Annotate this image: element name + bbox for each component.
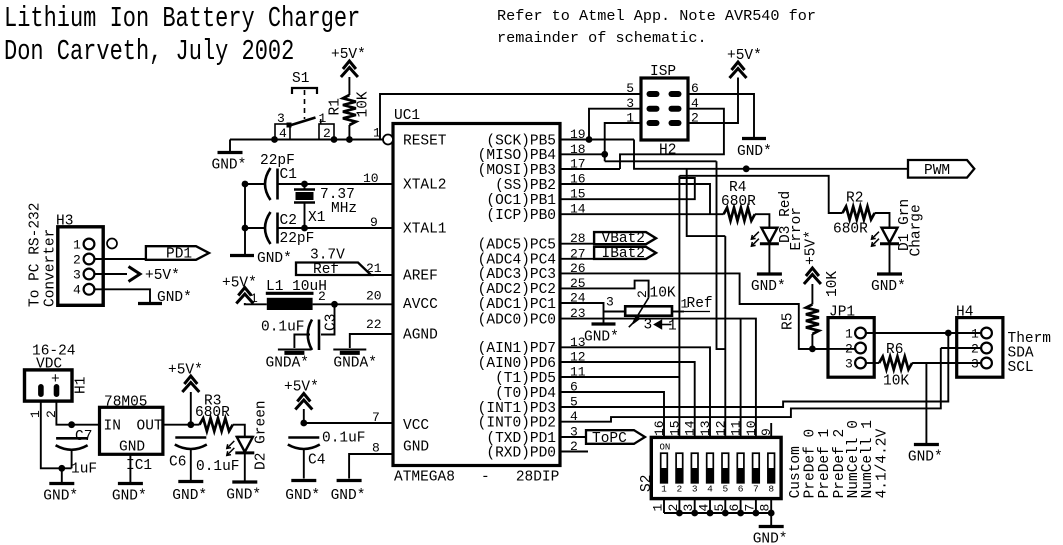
wire to C2 <box>245 227 266 229</box>
wire C2 to IC pin9 <box>278 227 394 229</box>
wire R5 bottom <box>811 334 813 349</box>
svg-text:0.1uF: 0.1uF <box>261 320 305 336</box>
svg-text:R5: R5 <box>781 313 797 330</box>
svg-text:GND*: GND* <box>112 489 147 505</box>
LED D1 <box>872 228 900 247</box>
wire pin24 row <box>560 303 604 323</box>
svg-text:(ICP)PB0: (ICP)PB0 <box>486 208 556 224</box>
svg-text:1: 1 <box>845 327 853 342</box>
svg-text:+5V*: +5V* <box>222 276 257 292</box>
svg-text:OUT: OUT <box>137 419 163 435</box>
svg-text:(RXD)PD0: (RXD)PD0 <box>486 445 556 461</box>
junction pin19/ISP3 <box>586 136 593 143</box>
svg-text:1: 1 <box>73 238 81 253</box>
wire pin15 row <box>560 178 695 199</box>
wire S2 to gnd <box>770 513 772 525</box>
wire JP1 pin3 to R6 <box>866 362 879 364</box>
svg-text:6: 6 <box>738 484 744 495</box>
svg-text:Lithium Ion Battery Charger: Lithium Ion Battery Charger <box>4 2 360 35</box>
IC left pin names <box>403 133 447 455</box>
svg-text:(ADC4)PC4: (ADC4)PC4 <box>478 253 556 269</box>
svg-text:RESET: RESET <box>403 133 447 149</box>
junction C6/+5V <box>187 421 194 428</box>
resistor R2 <box>843 207 875 220</box>
power +5V at C4 <box>295 394 312 410</box>
ground under H4 <box>908 445 943 466</box>
ground IC1 <box>112 484 147 505</box>
wire R2 to D1 <box>875 213 890 228</box>
svg-text:(SS)PB2: (SS)PB2 <box>495 178 556 194</box>
wire R4 to D3 <box>755 214 770 228</box>
wire S2 col6 feed <box>740 319 742 438</box>
junction rail C2 <box>242 225 249 232</box>
wire pin14 row <box>560 213 724 215</box>
svg-text:R1: R1 <box>328 98 344 115</box>
LED D2 <box>227 437 255 456</box>
svg-text:XTAL1: XTAL1 <box>403 222 447 238</box>
connector H3 box <box>58 227 103 305</box>
wire C3 left <box>294 335 310 349</box>
wire C6 bottom <box>190 449 192 481</box>
wire GND pin8 <box>349 454 393 479</box>
ground for crystal caps <box>230 251 292 267</box>
label Ref net <box>684 296 713 312</box>
+5V chevron right <box>129 267 141 282</box>
svg-text:PWM: PWM <box>924 163 950 179</box>
svg-text:(ADC1)PC1: (ADC1)PC1 <box>478 297 556 313</box>
LED D3 <box>751 228 779 247</box>
flag PWM <box>908 160 974 179</box>
ground ISP <box>737 139 772 161</box>
resistor R3 <box>200 418 233 431</box>
svg-text:GND*: GND* <box>285 488 320 504</box>
svg-text:(T1)PD5: (T1)PD5 <box>495 371 556 387</box>
switch S1 blade <box>288 118 316 127</box>
wire S2 col2 feed <box>678 176 680 438</box>
power +5V at L1 <box>236 288 253 304</box>
H3 pad2 <box>84 254 95 265</box>
IC right pin names <box>478 133 556 461</box>
wire pin28 row <box>560 243 594 245</box>
switch S1 contact box 4 <box>275 124 290 140</box>
H4 pad3 <box>981 358 992 369</box>
wire pin25 row <box>560 281 649 298</box>
svg-text:4.1/4.2V: 4.1/4.2V <box>875 428 891 498</box>
svg-text:22: 22 <box>366 317 382 332</box>
wire pin3 row <box>560 436 586 438</box>
svg-text:20: 20 <box>366 289 382 304</box>
inductor L1 <box>266 293 314 310</box>
H4 pad1 <box>981 328 992 339</box>
wire H3 pin2 to PD1 flag <box>94 258 145 260</box>
wire pin12 row <box>560 362 695 437</box>
svg-text:+: + <box>51 372 60 388</box>
wire R1 top <box>348 77 350 95</box>
wire ISP pin6 to gnd <box>688 94 754 138</box>
wire IC1 out <box>163 424 200 426</box>
IC left pin numbers <box>363 126 382 456</box>
H3 pad3 <box>84 269 95 280</box>
H3 pad4 <box>84 284 95 295</box>
svg-text:GND*: GND* <box>157 290 192 306</box>
svg-text:7: 7 <box>753 484 759 495</box>
capacitor C6 <box>175 438 207 450</box>
svg-text:ATMEGA8 - 28DIP: ATMEGA8 - 28DIP <box>394 470 559 486</box>
S2 bottom stubs <box>651 499 773 513</box>
svg-text:D2 Green: D2 Green <box>254 400 270 470</box>
regulator IC1 box <box>100 407 163 454</box>
ground C6 <box>172 482 207 505</box>
svg-text:8: 8 <box>768 484 774 495</box>
H2 pin numbers left <box>626 81 634 126</box>
trimmer body <box>625 306 672 315</box>
svg-text:(INT0)PD2: (INT0)PD2 <box>478 416 556 432</box>
resistor R6 <box>879 357 912 370</box>
junction C7 gnd <box>58 465 65 472</box>
junction C7 top <box>68 421 75 428</box>
S2 bottom bus <box>664 512 771 514</box>
ground D1 <box>871 274 906 295</box>
wire pin17 row <box>560 168 620 170</box>
svg-text:1: 1 <box>250 291 258 306</box>
wire pin4 row <box>560 348 941 422</box>
H2 pin numbers right <box>691 81 699 126</box>
resistor R1 <box>343 95 356 125</box>
svg-text:C4: C4 <box>308 453 325 469</box>
S2 top pin numbers <box>652 420 774 436</box>
wire H3 pin4 <box>94 289 150 302</box>
svg-text:1: 1 <box>661 484 667 495</box>
svg-text:11: 11 <box>729 420 744 436</box>
wire pin6 row <box>560 392 664 437</box>
svg-text:3: 3 <box>692 484 698 495</box>
ground H1/C7 <box>43 484 78 505</box>
svg-text:PreDef 1: PreDef 1 <box>817 429 833 499</box>
wire pin2 stub <box>560 451 588 453</box>
svg-text:H2: H2 <box>659 143 676 159</box>
svg-text:2: 2 <box>318 289 326 304</box>
wire +5V to C4 node <box>303 409 305 423</box>
power +5V at ISP <box>730 62 747 78</box>
junction therm/pin5 <box>945 330 952 337</box>
H4 pad2 <box>981 343 992 354</box>
wire MISO jog <box>605 160 717 162</box>
svg-text:0.1uF: 0.1uF <box>322 431 366 447</box>
wire S2 col5 feed <box>724 236 726 437</box>
svg-text:GND*: GND* <box>908 450 943 466</box>
svg-text:3: 3 <box>971 357 979 372</box>
wire ISP pin3 <box>589 109 641 140</box>
ground pin8 <box>331 481 366 505</box>
svg-text:+5V*: +5V* <box>331 47 366 63</box>
capacitor C2 <box>265 212 278 244</box>
svg-text:(INT1)PD3: (INT1)PD3 <box>478 401 556 417</box>
wire H4 pin2 <box>941 347 981 349</box>
flag Ref <box>296 262 371 278</box>
JP1 pad2 <box>855 343 866 354</box>
svg-text:4: 4 <box>707 484 713 495</box>
junction R1 bottom <box>346 136 353 143</box>
resistor R5 <box>806 304 819 334</box>
svg-text:+5V*: +5V* <box>727 48 762 64</box>
wire ISP pin5 to reset <box>380 94 641 140</box>
analog ground under C3 <box>266 350 311 372</box>
trimmer pin1 wire <box>672 311 684 313</box>
svg-text:1: 1 <box>668 319 677 335</box>
svg-text:IN: IN <box>104 419 121 435</box>
svg-text:PreDef 0: PreDef 0 <box>803 429 819 499</box>
junction C4 <box>300 420 307 427</box>
power +5V above R1 <box>341 61 358 77</box>
wire rail left of caps <box>244 184 246 254</box>
switch S1 contact box 2 <box>319 124 334 140</box>
svg-text:1: 1 <box>971 327 979 342</box>
junction X1 top <box>301 181 308 188</box>
svg-text:(SCK)PB5: (SCK)PB5 <box>486 133 556 149</box>
svg-text:2: 2 <box>635 290 650 298</box>
svg-text:680R: 680R <box>833 222 868 238</box>
svg-text:(ADC2)PC2: (ADC2)PC2 <box>478 282 556 298</box>
svg-text:9: 9 <box>759 428 774 436</box>
svg-text:GND*: GND* <box>737 144 772 160</box>
trimmer wiper <box>629 298 649 327</box>
wire pin18 row <box>560 153 605 155</box>
svg-text:H1: H1 <box>73 377 89 394</box>
power +5V at C6 <box>182 376 199 392</box>
H2 pads <box>647 91 682 126</box>
connector JP1 box <box>828 318 874 378</box>
capacitor C1 <box>265 168 278 200</box>
svg-text:Ref: Ref <box>313 262 339 278</box>
wire L1 to AVCC pin20 <box>313 303 393 305</box>
svg-text:4: 4 <box>73 283 81 298</box>
ground under C4 <box>285 481 320 505</box>
wire +5V to R5 <box>811 284 813 304</box>
ground S2 <box>753 527 788 545</box>
svg-text:S2: S2 <box>639 475 655 492</box>
svg-text:GND: GND <box>119 440 145 456</box>
flag VBat2 <box>594 231 656 247</box>
wire C3 top <box>321 304 335 334</box>
svg-text:1: 1 <box>651 504 666 512</box>
ground D2 <box>226 482 261 504</box>
svg-text:+5V*: +5V* <box>145 268 180 284</box>
svg-text:(ADC5)PC5: (ADC5)PC5 <box>478 238 556 254</box>
svg-text:(AIN0)PD6: (AIN0)PD6 <box>478 356 556 372</box>
wire bundle v716 <box>717 161 726 349</box>
junction S1-4 <box>271 136 278 143</box>
svg-text:GND*: GND* <box>43 489 78 505</box>
wire pin13 row <box>560 347 710 437</box>
svg-text:C1: C1 <box>280 167 297 183</box>
svg-text:GND*: GND* <box>212 158 247 174</box>
flag PD1 <box>146 246 209 263</box>
svg-text:(MISO)PB4: (MISO)PB4 <box>478 148 556 164</box>
svg-text:PD1: PD1 <box>166 247 192 263</box>
wire pin5 row <box>560 333 948 407</box>
svg-text:IBat2: IBat2 <box>602 246 646 262</box>
H3 pin numbers <box>73 238 81 298</box>
svg-text:10K: 10K <box>650 286 676 302</box>
wire VCC pin7 <box>304 422 393 424</box>
svg-text:Don Carveth, July 2002: Don Carveth, July 2002 <box>4 35 294 68</box>
wire trimmer pin3 <box>604 311 626 313</box>
switch S1 actuator bracket <box>292 88 317 94</box>
svg-text:4: 4 <box>279 126 287 141</box>
wire SCL to gnd <box>925 363 927 443</box>
wire JP1 pin1 to H4 pin1 <box>866 332 981 334</box>
svg-text:2: 2 <box>677 484 683 495</box>
crystal X1 <box>294 184 315 228</box>
wire C7 bottom <box>71 450 73 468</box>
svg-text:AGND: AGND <box>403 328 438 344</box>
svg-text:+5V*: +5V* <box>804 230 820 265</box>
svg-text:To PC RS-232: To PC RS-232 <box>28 203 44 307</box>
svg-text:X1: X1 <box>308 210 325 226</box>
capacitor C4 <box>288 438 320 450</box>
ground GND* under switch <box>212 153 247 174</box>
svg-text:C3: C3 <box>324 314 340 331</box>
wire R6 right <box>912 362 981 364</box>
switch S1 contact 1 stub <box>320 119 322 124</box>
svg-text:0.1uF: 0.1uF <box>196 459 240 475</box>
wire to JP1 pin2 <box>799 348 856 350</box>
svg-text:AREF: AREF <box>403 269 438 285</box>
svg-text:GND: GND <box>403 440 429 456</box>
analog ground pin22 <box>333 350 377 372</box>
switch S2 box <box>651 437 781 498</box>
wire ISP pin4 <box>620 109 724 169</box>
wire pin19 row <box>560 139 634 141</box>
capacitor C3 <box>308 320 319 351</box>
svg-text:3: 3 <box>644 318 653 334</box>
svg-text:AVCC: AVCC <box>403 297 438 313</box>
H3 pad1 <box>84 239 95 250</box>
svg-text:3: 3 <box>73 268 81 283</box>
wire H1 pin1 down <box>41 401 72 468</box>
svg-text:VBat2: VBat2 <box>602 231 646 247</box>
svg-text:+5V*: +5V* <box>284 380 319 396</box>
svg-text:2: 2 <box>971 342 979 357</box>
wire pin26 row <box>560 273 828 349</box>
svg-text:12: 12 <box>713 420 728 436</box>
flag ToPC <box>586 430 645 447</box>
H1 pad 1 <box>38 384 44 397</box>
switch S1 pivot <box>287 123 292 128</box>
switch S1 dashed link <box>304 90 306 119</box>
svg-text:R6: R6 <box>886 342 903 358</box>
wire +5V to L1 <box>245 303 267 304</box>
svg-text:22pF: 22pF <box>280 231 315 247</box>
svg-text:GNDA*: GNDA* <box>333 356 377 372</box>
wire C1 to IC pin10 <box>278 183 394 185</box>
wire AGND pin22 <box>350 334 393 348</box>
wire H1 pin2 down <box>56 401 99 425</box>
svg-text:SCL: SCL <box>1008 360 1034 376</box>
svg-text:10: 10 <box>744 420 759 436</box>
wire D3 to gnd <box>768 244 770 273</box>
flag IBat2 <box>594 246 656 262</box>
S2 switch elements <box>661 453 775 494</box>
wire pin23 row <box>560 319 756 438</box>
svg-text:XTAL2: XTAL2 <box>403 178 447 194</box>
wire C4 bottom <box>303 449 305 479</box>
capacitor C7 <box>56 438 88 450</box>
svg-text:10K: 10K <box>883 374 909 390</box>
svg-text:(MOSI)PB3: (MOSI)PB3 <box>478 163 556 179</box>
svg-text:GND*: GND* <box>753 532 788 545</box>
junction rail C1 <box>242 181 249 188</box>
svg-text:2: 2 <box>73 253 81 268</box>
power +5V at R5 <box>804 268 821 284</box>
connector H4 box <box>957 318 1003 378</box>
junction X1 bottom <box>301 225 308 232</box>
reset inversion circle <box>383 135 393 145</box>
svg-text:C7: C7 <box>75 429 92 445</box>
svg-text:UC1: UC1 <box>394 108 420 124</box>
wire D2 to gnd <box>244 453 246 481</box>
svg-text:16: 16 <box>652 420 667 436</box>
svg-text:GND*: GND* <box>226 488 261 504</box>
svg-text:GND*: GND* <box>871 279 906 295</box>
junction on PWM line <box>743 165 750 172</box>
svg-text:ON: ON <box>660 443 671 453</box>
svg-text:(ADC0)PC0: (ADC0)PC0 <box>478 312 556 328</box>
S2 setting labels <box>788 420 891 498</box>
wire ISP pin1 <box>605 123 641 161</box>
svg-text:(T0)PD4: (T0)PD4 <box>495 386 556 402</box>
title line 1 <box>4 2 360 35</box>
svg-text:(AIN1)PD7: (AIN1)PD7 <box>478 341 556 357</box>
svg-text:3: 3 <box>845 357 853 372</box>
svg-text:C2: C2 <box>280 213 297 229</box>
wire R3 to D2 <box>233 425 245 437</box>
wire pin27 row <box>560 258 594 260</box>
wire to gnd H1 <box>61 468 63 482</box>
wire pin11 row <box>560 376 679 378</box>
svg-text:GND*: GND* <box>331 488 366 504</box>
ground D3 <box>751 274 786 295</box>
junction S1-2 <box>331 136 338 143</box>
wire Ref flag to AREF <box>371 274 393 276</box>
svg-text:GND*: GND* <box>751 279 786 295</box>
svg-text:15: 15 <box>667 420 682 436</box>
H1 pad 2 <box>54 384 60 397</box>
wire ISP pin2 to +5V <box>688 78 738 124</box>
svg-text:5: 5 <box>722 484 728 495</box>
resistor R4 <box>724 208 755 221</box>
svg-text:MHz: MHz <box>331 201 357 217</box>
svg-text:GND*: GND* <box>584 330 619 346</box>
gnd stub under switch <box>229 140 231 152</box>
wire pin16 row <box>560 184 710 214</box>
wire SCK to PWM <box>634 140 908 169</box>
wire to C1 <box>245 183 266 185</box>
ground H3 pin4 <box>138 290 192 306</box>
junction C3 tap <box>331 301 338 308</box>
title line 2 <box>4 35 294 68</box>
svg-text:3: 3 <box>606 295 614 310</box>
wire reset row <box>230 139 383 141</box>
S2 bottom junctions <box>676 510 775 517</box>
svg-text:10K: 10K <box>356 91 372 117</box>
IC UC1 box <box>393 124 560 466</box>
JP1 pin numbers <box>845 327 853 372</box>
wire R2 net <box>679 176 842 213</box>
junction pin18/ISP1 <box>601 151 608 158</box>
svg-text:10K: 10K <box>825 271 841 297</box>
svg-text:Charge: Charge <box>909 204 925 256</box>
